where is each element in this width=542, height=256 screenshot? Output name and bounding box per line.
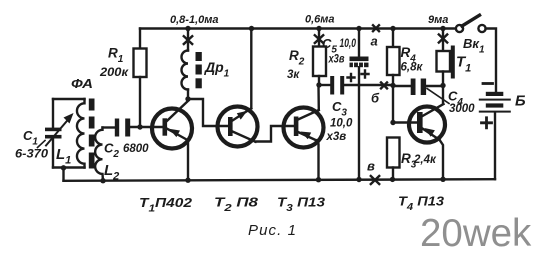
label R2 3к bbox=[287, 48, 305, 81]
node loop bottom to ground rail bbox=[61, 165, 66, 170]
capacitor C1 (variable, 6-370) bbox=[38, 99, 74, 168]
wire from T1 collector node to T2 base bbox=[188, 99, 228, 126]
capacitor C2 bbox=[103, 119, 163, 137]
node C5 branch at top rail bbox=[356, 26, 361, 31]
svg-text:Т2 П8: Т2 П8 bbox=[214, 195, 259, 215]
wire bottom ground rail (positive) bbox=[64, 179, 496, 181]
break mark 0,6ма bbox=[315, 35, 323, 43]
inductor L2 bbox=[95, 128, 103, 181]
resistor R4 bbox=[387, 29, 400, 123]
svg-text:С1: С1 bbox=[23, 128, 38, 148]
resistor R2 bbox=[313, 29, 326, 86]
node C5 at ground rail bbox=[356, 177, 361, 182]
inductor Др1 (RF choke) bbox=[182, 29, 188, 100]
node: choke bottom / T1 collector / T2 base junction bbox=[185, 96, 190, 101]
wire loop bottom down to rail bbox=[62, 168, 64, 181]
svg-text:Т3 П13: Т3 П13 bbox=[277, 195, 326, 215]
transistor T4 (П13) bbox=[393, 104, 445, 179]
ferrite rod core of ФА antenna (dashed bar) bbox=[89, 99, 95, 169]
wire top supply rail (negative) bbox=[140, 27, 456, 29]
svg-text:6,8к: 6,8к bbox=[401, 62, 424, 74]
label C2 6800 bbox=[104, 141, 149, 161]
svg-text:Вк1: Вк1 bbox=[463, 36, 485, 56]
label C1 6-370 bbox=[15, 128, 49, 161]
transformer T1 core bar bbox=[451, 46, 455, 79]
svg-text:ФА: ФА bbox=[71, 76, 93, 91]
node a: break mark on top rail bbox=[373, 25, 379, 31]
battery Б bbox=[479, 92, 511, 113]
svg-text:в: в bbox=[367, 159, 375, 174]
capacitor C4 bbox=[393, 79, 443, 96]
svg-text:б: б bbox=[371, 91, 380, 106]
node 9ма branch at top rail bbox=[440, 26, 445, 31]
polarity plus of C3 bbox=[348, 74, 355, 81]
wire б line C3 to R4 with break mark bbox=[359, 84, 393, 86]
svg-text:С3: С3 bbox=[332, 99, 347, 119]
node T4 base junction bbox=[390, 120, 395, 125]
node б: break mark bbox=[381, 82, 387, 88]
polarity plus of C5 bbox=[362, 71, 369, 78]
svg-text:а: а bbox=[371, 34, 378, 49]
capacitor C5 (electrolytic decoupling) bbox=[350, 29, 369, 180]
svg-text:х3в: х3в bbox=[328, 54, 345, 66]
svg-text:10,0: 10,0 bbox=[330, 118, 353, 130]
svg-text:200к: 200к bbox=[99, 67, 129, 79]
svg-text:R1: R1 bbox=[108, 46, 124, 66]
label C5 10,0 x3в bbox=[322, 36, 356, 66]
transistor T3 (П13) bbox=[284, 86, 324, 180]
svg-text:Др1: Др1 bbox=[204, 59, 230, 80]
node R4 branch at top rail bbox=[390, 26, 395, 31]
svg-text:6-370: 6-370 bbox=[15, 149, 49, 161]
transformer T1 primary winding bbox=[437, 29, 451, 104]
node R4 / б line / C4 junction bbox=[390, 83, 395, 88]
svg-text:6800: 6800 bbox=[123, 143, 149, 155]
svg-text:х3в: х3в bbox=[326, 131, 347, 143]
node L2 at ground rail bbox=[100, 178, 105, 183]
label R1 200к bbox=[99, 46, 129, 80]
transistor T1 (П402) bbox=[152, 101, 192, 181]
switch Вк1 bbox=[456, 15, 486, 32]
label C3 10,0 x3в bbox=[326, 99, 353, 143]
svg-text:Т4 П13: Т4 П13 bbox=[398, 194, 445, 214]
capacitor C3 bbox=[319, 76, 359, 95]
label R4 6,8к bbox=[401, 45, 424, 74]
wire input loop top bbox=[53, 98, 85, 100]
node R3 at ground rail bbox=[390, 177, 395, 182]
node T1 emitter at ground rail bbox=[185, 178, 190, 183]
node R1 / C2 / T1 base junction bbox=[137, 124, 142, 129]
inductor Др1 core (dashed bar) bbox=[196, 52, 202, 88]
svg-text:0,6ма: 0,6ма bbox=[305, 14, 335, 26]
battery plus sign bbox=[482, 118, 492, 128]
svg-text:Б: Б bbox=[515, 93, 526, 110]
svg-text:Т1П402: Т1П402 bbox=[139, 195, 193, 215]
node T2 emitter at top rail bbox=[249, 26, 254, 31]
svg-text:3000: 3000 bbox=[449, 103, 475, 115]
svg-text:0,8-1,0ма: 0,8-1,0ма bbox=[170, 14, 219, 26]
svg-text:20wek: 20wek bbox=[420, 212, 532, 255]
svg-text:R2: R2 bbox=[289, 48, 305, 68]
svg-text:Рис. 1: Рис. 1 bbox=[248, 222, 296, 239]
node R2 branch at top rail bbox=[316, 26, 321, 31]
wire input loop bottom bbox=[53, 166, 85, 168]
svg-text:С2: С2 bbox=[104, 141, 119, 161]
resistor R1 bbox=[134, 29, 147, 128]
transistor T2 (П8, NPN) bbox=[218, 29, 258, 147]
wire switch to battery bbox=[486, 29, 496, 93]
node 0,8-1,0ма current point: junction dot, break mark bbox=[184, 26, 192, 44]
label R3 2,4к bbox=[401, 151, 437, 171]
svg-text:9ма: 9ма bbox=[428, 14, 448, 26]
break mark 9ма bbox=[439, 35, 447, 43]
svg-text:L1: L1 bbox=[56, 146, 71, 167]
svg-text:Т1: Т1 bbox=[456, 54, 471, 75]
label C4 3000 with pointer bbox=[448, 89, 475, 116]
node T3 emitter at ground rail bbox=[316, 177, 321, 182]
resistor R3 bbox=[387, 138, 400, 180]
node R2 / C3 / T3 collector junction bbox=[316, 82, 321, 87]
node T4 emitter at ground rail bbox=[440, 177, 445, 182]
svg-text:3к: 3к bbox=[287, 69, 300, 81]
wire battery to ground rail bbox=[494, 113, 496, 180]
svg-text:2,4к: 2,4к bbox=[413, 154, 437, 166]
battery minus sign bbox=[483, 82, 493, 85]
wire T2 collector to T3 base bbox=[256, 126, 294, 142]
node C4 / transformer / T4 collector junction bbox=[440, 83, 445, 88]
svg-text:10,0: 10,0 bbox=[340, 36, 357, 50]
node в: break mark on ground rail bbox=[371, 176, 379, 184]
inductor L1 bbox=[77, 99, 85, 168]
